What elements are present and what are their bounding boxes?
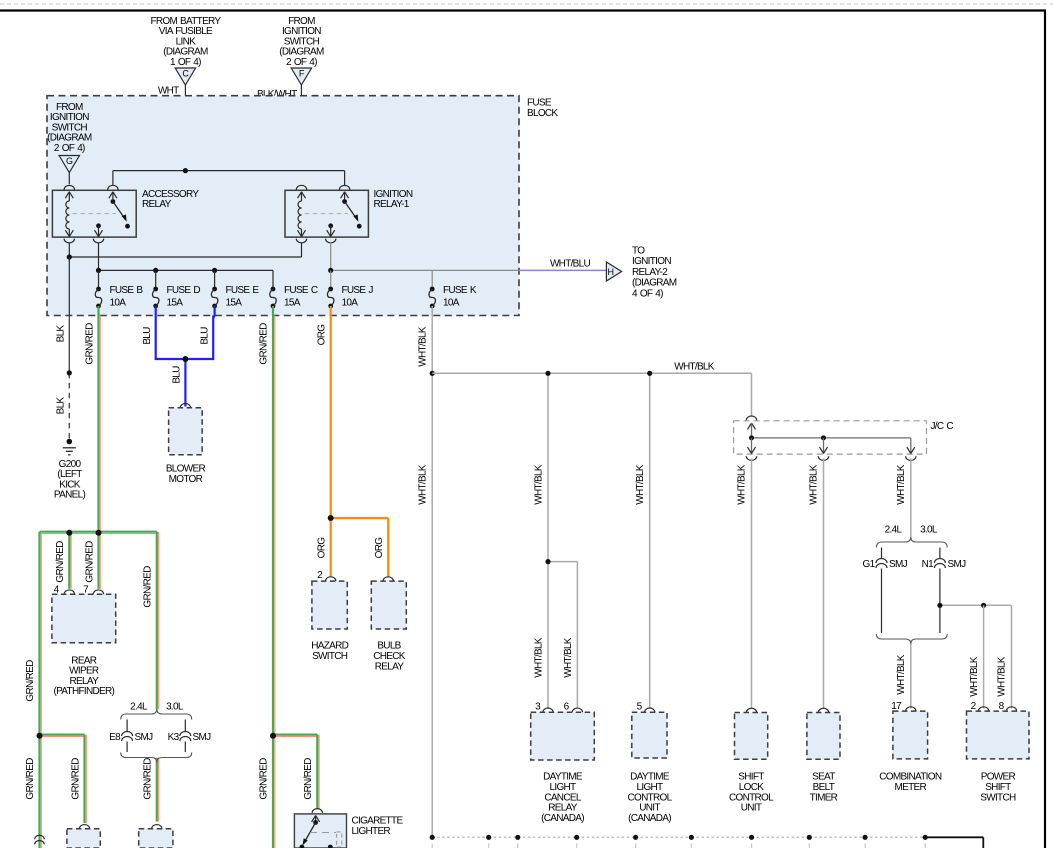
svg-text:(DIAGRAM: (DIAGRAM: [632, 278, 677, 289]
wire WHT/BLK to pin 3: [547, 562, 549, 709]
wire to power shift switch pins: [940, 604, 1012, 606]
svg-text:FUSE: FUSE: [527, 98, 552, 109]
bottom bus junction dot 1: [430, 835, 435, 840]
bottom bus stub 8: [808, 844, 810, 848]
junction dot left column: [37, 733, 43, 739]
svg-text:BLU: BLU: [172, 366, 183, 384]
wire fuse J top: [330, 270, 332, 288]
page border top: [0, 9, 1046, 11]
svg-text:2 OF 4): 2 OF 4): [286, 57, 317, 68]
wire ORG to bulb check relay: [331, 517, 389, 519]
svg-text:GRN/RED: GRN/RED: [25, 660, 36, 702]
fuse feed bus right: [331, 269, 519, 271]
cigarette lighter connector: [312, 809, 322, 813]
svg-text:WHT/BLK: WHT/BLK: [534, 637, 545, 678]
svg-text:BLK: BLK: [56, 325, 67, 343]
svg-text:SEAT: SEAT: [812, 772, 835, 783]
svg-text:UNIT: UNIT: [741, 803, 762, 814]
junction dot rear wiper pin 4: [66, 530, 72, 536]
ground G200: [67, 439, 73, 445]
wire below N1: [939, 569, 941, 634]
wire fuse C bottom to block edge: [272, 306, 274, 316]
svg-text:FUSE J: FUSE J: [342, 285, 374, 296]
wire BLK below fuse block: [68, 316, 70, 373]
SMJ brace close right: [876, 634, 947, 644]
svg-text:DAYTIME: DAYTIME: [630, 772, 670, 783]
fuse E: [212, 287, 217, 292]
inline connector on left column: [35, 835, 45, 839]
wire GRN/RED to pin 4: [68, 533, 70, 589]
combination meter box: [893, 711, 928, 759]
svg-text:GRN/RED: GRN/RED: [85, 541, 96, 583]
wire fuse E top: [214, 270, 216, 288]
svg-text:MOTOR: MOTOR: [169, 474, 203, 485]
blower motor box: [169, 408, 203, 455]
wire below G1: [881, 569, 883, 634]
wire BLU join: [155, 358, 215, 360]
wire BLU to blower motor: [184, 359, 186, 407]
svg-text:RELAY: RELAY: [548, 803, 578, 814]
svg-text:GRN/RED: GRN/RED: [259, 758, 270, 800]
junction dot cigarette branch: [270, 733, 276, 739]
svg-text:SWITCH: SWITCH: [312, 651, 348, 662]
blower motor connector: [180, 404, 190, 408]
svg-text:SMJ: SMJ: [135, 732, 154, 743]
junction connector J/C C box: [734, 421, 927, 454]
svg-text:SMJ: SMJ: [889, 559, 908, 570]
svg-text:10A: 10A: [342, 298, 359, 309]
wire fuse E bottom to block edge: [214, 306, 216, 316]
svg-text:IGNITION: IGNITION: [632, 256, 671, 267]
svg-text:4 OF 4): 4 OF 4): [632, 288, 663, 299]
wire BLU fuse D down: [155, 316, 157, 360]
J/C C exit arrow 2: [823, 438, 825, 454]
J/C C exit arrow 1: [751, 438, 753, 454]
svg-text:SHIFT: SHIFT: [738, 772, 764, 783]
svg-text:10A: 10A: [443, 298, 460, 309]
svg-text:2.4L: 2.4L: [130, 702, 148, 713]
svg-text:J/C C: J/C C: [931, 421, 954, 432]
ignition relay switch: [341, 192, 345, 198]
ignition relay mechanical link: [305, 213, 348, 215]
fuse B: [96, 287, 101, 292]
svg-text:FUSE B: FUSE B: [110, 285, 144, 296]
wire fuse B top: [98, 270, 100, 288]
svg-text:WHT/BLK: WHT/BLK: [896, 464, 907, 505]
fuse feed bus left: [99, 269, 274, 271]
wire WHT/BLK daytime cancel down: [547, 373, 549, 561]
wire brace to combination meter: [910, 644, 912, 709]
wire relay coil return bus: [68, 243, 70, 258]
svg-text:5: 5: [637, 702, 643, 713]
svg-text:DAYTIME: DAYTIME: [543, 772, 583, 783]
shift lock control unit box: [735, 713, 768, 760]
svg-text:GRN/RED: GRN/RED: [303, 758, 314, 800]
wire WHT/BLK seat belt down: [823, 459, 825, 709]
junction dot BLU: [182, 356, 188, 362]
svg-text:LIGHTER: LIGHTER: [352, 826, 391, 837]
svg-text:CHECK: CHECK: [373, 651, 406, 662]
junction dot WHT bus: [183, 168, 188, 173]
svg-text:LOCK: LOCK: [739, 782, 764, 793]
cigarette lighter box: [294, 814, 346, 848]
svg-text:ORG: ORG: [374, 537, 385, 559]
svg-text:K3: K3: [168, 732, 180, 743]
SMJ connector N1: [934, 558, 945, 563]
svg-text:GRN/RED: GRN/RED: [143, 566, 154, 608]
wire GRN/RED to cigarette lighter: [273, 733, 317, 735]
svg-text:G1: G1: [863, 559, 876, 570]
bulb check relay connector: [383, 577, 393, 581]
wire WHT/BLK daytime control down: [649, 373, 651, 708]
junction dot daytime control branch: [647, 371, 652, 376]
svg-text:WHT/BLK: WHT/BLK: [737, 464, 748, 505]
wire GRN/RED SMJ column lower: [156, 758, 158, 822]
wire BLU fuse E down: [212, 316, 214, 360]
SMJ brace open left: [121, 709, 192, 720]
svg-text:SMJ: SMJ: [193, 732, 212, 743]
svg-text:CONTROL: CONTROL: [729, 792, 774, 803]
SMJ connector E8: [122, 731, 133, 736]
wire BLK inside fuse block: [68, 257, 70, 316]
wire to SMJ N1: [939, 548, 941, 559]
junction dot coil return: [67, 254, 72, 259]
wire ORG fuse J down: [330, 316, 332, 578]
bottom bus junction dot 4: [574, 835, 579, 840]
svg-text:BLK: BLK: [56, 397, 67, 415]
wire fuse D top: [155, 270, 157, 288]
svg-text:15A: 15A: [284, 298, 301, 309]
svg-text:ORG: ORG: [317, 537, 328, 559]
svg-text:ORG: ORG: [317, 324, 328, 346]
svg-text:2 OF 4): 2 OF 4): [54, 143, 85, 154]
wire GRN/RED branch to connector box: [40, 733, 85, 735]
wire from triangle G to accessory relay coil: [68, 173, 70, 185]
accessory relay output bottom connector: [93, 239, 103, 243]
junction dot fuse B: [96, 268, 101, 273]
svg-text:15A: 15A: [167, 298, 184, 309]
svg-text:RELAY: RELAY: [142, 199, 172, 210]
fuse block box: [47, 96, 519, 316]
wire fuse J bottom to block edge: [330, 306, 332, 316]
svg-text:BLU: BLU: [200, 327, 211, 345]
junction dot daytime cancel branch: [545, 371, 550, 376]
svg-text:CANCEL: CANCEL: [544, 792, 582, 803]
accessory relay switch: [109, 192, 113, 198]
bottom bus junction dot 9: [863, 835, 868, 840]
wire GRN/RED fuse C down: [272, 316, 274, 848]
junction dot fuse E: [212, 268, 217, 273]
bottom bus junction dot 7: [749, 835, 754, 840]
wire WHT/BLK shift lock down: [751, 459, 753, 709]
accessory relay coil: [65, 192, 69, 198]
svg-text:POWER: POWER: [981, 772, 1016, 783]
wire fuse K bottom to block edge: [431, 306, 433, 316]
svg-text:FUSE E: FUSE E: [226, 285, 260, 296]
svg-text:3.0L: 3.0L: [920, 525, 938, 536]
svg-text:UNIT: UNIT: [639, 803, 660, 814]
ignition relay coil: [298, 192, 302, 198]
svg-text:15A: 15A: [226, 298, 243, 309]
svg-text:(CANADA): (CANADA): [628, 813, 671, 824]
bottom bus junction dot 8: [807, 835, 812, 840]
svg-text:BLOCK: BLOCK: [527, 108, 558, 119]
junction dot daytime cancel split: [545, 559, 550, 564]
bottom bus solid right segment: [925, 836, 983, 838]
wire fuse D bottom to block edge: [155, 306, 157, 316]
svg-text:3: 3: [535, 702, 541, 713]
svg-text:G: G: [66, 156, 73, 166]
daytime light cancel relay box: [531, 712, 595, 760]
bottom bus stub 9: [864, 844, 866, 848]
junction dot power shift branch: [981, 603, 986, 608]
junction dot fuse J: [328, 268, 333, 273]
svg-text:(PATHFINDER): (PATHFINDER): [53, 686, 114, 697]
page top faint dashed line: [0, 3, 1053, 5]
svg-text:METER: METER: [895, 782, 927, 793]
wire WHT/BLK to SMJ brace right: [910, 459, 912, 538]
svg-text:FUSE C: FUSE C: [284, 285, 318, 296]
wire GRN/RED fuse B down: [97, 316, 99, 533]
wire GRN/RED to pin 7: [97, 533, 99, 589]
svg-text:SHIFT: SHIFT: [985, 782, 1011, 793]
connector box bottom-left 2: [152, 825, 162, 829]
svg-text:6: 6: [564, 702, 570, 713]
svg-text:SWITCH: SWITCH: [980, 792, 1016, 803]
connector box bottom-left 1: [79, 825, 89, 829]
bottom bus stub 2: [488, 844, 490, 848]
bottom bus stub 1: [431, 844, 433, 848]
svg-text:FUSE K: FUSE K: [443, 285, 477, 296]
svg-text:WHT/BLK: WHT/BLK: [418, 464, 429, 505]
wire fuse K top: [431, 270, 433, 288]
svg-text:BULB: BULB: [377, 641, 401, 652]
wire WHT/BLK to pin 6: [548, 561, 577, 563]
junction dot BLK: [67, 370, 72, 375]
svg-text:3.0L: 3.0L: [166, 702, 184, 713]
fuse D: [153, 287, 158, 292]
wire to SMJ K3: [184, 720, 186, 732]
accessory relay coil pin top connector: [64, 185, 74, 189]
wire WHT from triangle C: [184, 85, 186, 171]
bottom bus stub 6: [690, 844, 692, 848]
fuse C: [271, 287, 276, 292]
svg-text:WHT/BLK: WHT/BLK: [997, 656, 1008, 697]
seat belt timer box: [807, 713, 840, 760]
ignition relay coil bottom connector: [296, 239, 306, 243]
seat belt timer connector: [818, 708, 828, 712]
bottom bus stub 4: [576, 844, 578, 848]
fuse J: [328, 287, 333, 292]
svg-text:10A: 10A: [110, 298, 127, 309]
accessory relay mechanical link: [73, 213, 117, 215]
svg-text:GRN/RED: GRN/RED: [55, 541, 66, 583]
wire BLK dashed to ground: [68, 373, 70, 439]
svg-text:GRN/RED: GRN/RED: [85, 323, 96, 365]
svg-text:RELAY-1: RELAY-1: [374, 199, 410, 210]
svg-text:PANEL): PANEL): [54, 490, 86, 501]
J/C C exit arrow 3: [910, 438, 912, 454]
wire WHT/BLU to ignition relay-2: [519, 269, 606, 271]
page border right: [1044, 11, 1046, 848]
wire WHT bus to relay switch pins: [113, 170, 345, 172]
shift lock connector: [746, 708, 756, 712]
bottom bus junction dot 2: [486, 835, 491, 840]
svg-text:WHT/BLK: WHT/BLK: [969, 656, 980, 697]
fuse K: [430, 287, 435, 292]
svg-text:WHT/BLU: WHT/BLU: [550, 259, 591, 270]
SMJ connector G1: [876, 558, 887, 563]
svg-text:HAZARD: HAZARD: [311, 641, 348, 652]
J/C C internal bus: [748, 423, 752, 429]
bottom bus stub 5: [635, 844, 637, 848]
connector triangle F: [291, 68, 311, 85]
wire GRN/RED rear wiper bus: [40, 531, 157, 533]
wire to SMJ E8: [126, 720, 128, 732]
junction dot rear wiper pin 7: [96, 530, 102, 536]
svg-text:WHT/BLK: WHT/BLK: [896, 654, 907, 695]
bottom bus dotted segments: [432, 836, 489, 838]
power shift switch box: [967, 711, 1030, 759]
svg-text:LIGHT: LIGHT: [637, 782, 664, 793]
svg-text:BLOWER: BLOWER: [166, 464, 206, 475]
svg-text:E8: E8: [109, 732, 121, 743]
svg-text:BLU: BLU: [142, 327, 153, 345]
bottom bus junction dot 3: [515, 835, 520, 840]
SMJ brace open right: [876, 537, 947, 548]
svg-text:FUSE D: FUSE D: [167, 285, 201, 296]
svg-text:WHT/BLK: WHT/BLK: [563, 637, 574, 678]
connector triangle C: [175, 68, 195, 85]
wire accessory relay output to fuse bus: [98, 243, 100, 271]
wire to SMJ G1: [881, 548, 883, 559]
ignition relay output bottom connector: [326, 239, 336, 243]
svg-text:CIGARETTE: CIGARETTE: [352, 816, 404, 827]
svg-text:SMJ: SMJ: [948, 559, 967, 570]
junction dot WHT/BLK bus left: [430, 371, 435, 376]
svg-text:GRN/RED: GRN/RED: [142, 758, 153, 800]
wire fuse B bottom to block edge: [97, 306, 99, 316]
svg-text:WHT/BLK: WHT/BLK: [635, 464, 646, 505]
bulb check relay box: [371, 581, 406, 629]
SMJ brace close left: [121, 753, 192, 763]
svg-text:2.4L: 2.4L: [885, 525, 903, 536]
accessory relay output pin: [96, 223, 101, 228]
wire BLK/WHT from triangle F: [300, 85, 302, 184]
svg-text:WHT/BLK: WHT/BLK: [534, 464, 545, 505]
svg-text:TIMER: TIMER: [810, 792, 838, 803]
svg-text:(CANADA): (CANADA): [541, 813, 584, 824]
svg-text:GRN/RED: GRN/RED: [25, 758, 36, 800]
cigarette lighter switch: [312, 816, 316, 822]
svg-text:BELT: BELT: [813, 782, 835, 793]
bottom bus stub 10: [924, 844, 926, 848]
connector triangle H: [606, 262, 621, 281]
svg-text:LIGHT: LIGHT: [550, 782, 577, 793]
svg-text:COMBINATION: COMBINATION: [879, 772, 942, 783]
svg-text:WHT/BLK: WHT/BLK: [809, 464, 820, 505]
junction dot fuse D: [153, 268, 158, 273]
svg-text:WHT/BLK: WHT/BLK: [418, 326, 429, 367]
wire WHT/BLK fuse K down: [431, 316, 433, 838]
bottom bus stub 3: [517, 844, 519, 848]
connector triangle G: [59, 156, 79, 173]
svg-text:H: H: [608, 267, 614, 277]
J/C C entry connector: [746, 416, 756, 420]
wire ignition relay output to fuse bus: [330, 243, 332, 271]
rear wiper relay box: [52, 594, 116, 643]
svg-text:2: 2: [317, 570, 323, 581]
SMJ connector K3: [180, 731, 191, 736]
bottom bus stub 7: [751, 844, 753, 848]
daytime light control unit box: [632, 712, 667, 758]
wire WHT/BLK horizontal bus: [432, 372, 751, 374]
junction dot ORG: [328, 515, 334, 521]
svg-text:GRN/RED: GRN/RED: [259, 323, 270, 365]
ignition relay coil pin top connector: [296, 185, 306, 189]
accessory relay switch pin top connector: [108, 185, 118, 189]
svg-text:CONTROL: CONTROL: [628, 792, 673, 803]
ignition relay output pin: [328, 223, 333, 228]
bottom bus junction dot 5: [633, 835, 638, 840]
svg-text:WHT/BLK: WHT/BLK: [674, 362, 715, 373]
ignition relay-1 box: [285, 190, 368, 237]
svg-text:WHT: WHT: [158, 86, 179, 97]
svg-text:N1: N1: [922, 559, 935, 570]
ignition relay switch pin top connector: [339, 185, 349, 189]
svg-text:RELAY: RELAY: [375, 662, 405, 673]
bottom bus junction dot 10: [923, 835, 928, 840]
svg-text:GRN/RED: GRN/RED: [71, 758, 82, 800]
junction dot N1 branch: [937, 603, 942, 608]
svg-text:RELAY-2: RELAY-2: [632, 267, 668, 278]
wire GRN/RED left column to bottom: [38, 736, 40, 848]
accessory relay coil bottom connector: [64, 239, 74, 243]
bottom bus junction dot 6: [689, 835, 694, 840]
hazard switch box: [312, 581, 347, 629]
accessory relay U1 box: [52, 190, 136, 237]
svg-text:1 OF 4): 1 OF 4): [170, 57, 201, 68]
svg-text:TO: TO: [632, 246, 645, 257]
svg-text:C: C: [182, 69, 189, 79]
